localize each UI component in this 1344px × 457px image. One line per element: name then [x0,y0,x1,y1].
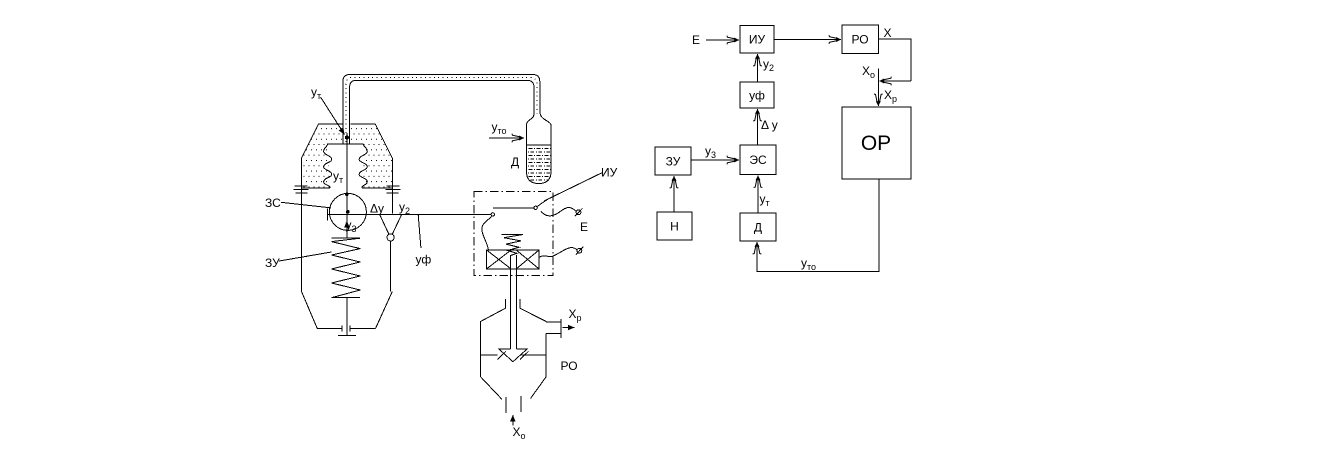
arrow Xp [563,327,575,329]
label X [884,26,892,40]
block Д [740,213,776,241]
contact circle left [491,213,494,216]
svg-text:ОР: ОР [861,132,891,155]
block ЭС [740,145,776,175]
svg-text:ЗУ: ЗУ [666,155,681,169]
valve bottom body [481,355,547,399]
label Xp [884,88,897,104]
chamber dotted fill [302,124,393,188]
spring ЗУ [332,238,361,298]
blade pivot circle [534,206,537,209]
label ЗС [265,196,281,210]
label ОР [861,132,891,155]
label y2 lever [399,200,410,216]
terminal upper [575,208,583,216]
node circle top [345,193,349,197]
label y3 [705,144,716,160]
label yto bulb [492,120,507,136]
block уф [740,82,774,108]
switch blade [493,207,534,209]
label ЗУ [265,256,280,270]
arrow y3 [346,221,348,226]
label уф lever [416,253,432,267]
valve stem [511,255,517,349]
svg-text:ИУ: ИУ [601,166,618,180]
arrow ИУ to РО [774,39,841,41]
arrow Н to ЗУ [673,176,675,212]
bulb body [527,125,552,184]
node circle center [346,210,350,214]
svg-text:РО: РО [561,359,578,373]
pointer ЗС [281,202,331,208]
svg-text:Е: Е [580,220,588,234]
block ЗУ [655,147,691,175]
arrow Д to ЭС [757,176,759,214]
label уф [749,89,765,103]
pointer ЗУ [279,252,331,261]
label delta y lever [370,202,384,216]
svg-text:Δ у: Δ у [761,118,778,132]
seat marks [498,351,529,359]
arrow yto to bulb [489,137,524,139]
bulb neck [527,112,552,125]
arrow E to ИУ [706,39,739,41]
lever bar [328,209,492,221]
svg-text:Н: Н [670,220,679,234]
svg-text:Д: Д [511,155,519,169]
valve plug [499,349,527,362]
label Д bulb [511,155,519,169]
label y2 [763,57,774,73]
svg-text:уф: уф [749,89,765,103]
label ИУ [749,33,766,47]
label ИУ pointer [601,166,618,180]
node Xo stub [877,69,879,82]
arrow ЗУ to ЭС [691,159,739,161]
label Хо valve [513,425,526,441]
inlet flanges [506,396,521,413]
label Е input [692,33,700,47]
capillary tube entry white [343,123,349,145]
chamber bottom edge [302,187,393,189]
label y3 rod [346,218,357,234]
cavity arch top [327,143,364,145]
rod lower [346,298,348,336]
chamber outline [302,124,393,186]
blade tilt [537,199,548,207]
bellows left [324,144,332,188]
bulb liquid fill [527,145,551,183]
valve gland ticks [506,299,520,308]
capillary tube inner wall [350,80,534,144]
arrow ЭС to уф [757,109,759,145]
seal plates right [385,186,400,193]
fulcrum pivot circle [387,234,394,241]
anchor T [338,334,356,336]
block ИУ [740,26,774,54]
housing right wall lower [390,241,392,292]
bellows right [359,144,367,188]
svg-text:ЭС: ЭС [749,153,767,167]
housing bottom [317,325,375,331]
block РО [842,25,878,53]
valve top body [481,308,561,355]
block ОР [842,107,911,179]
block Н [657,212,692,240]
housing right wall upper [391,186,393,213]
outlet flange [560,319,562,338]
svg-text:уф: уф [416,253,432,267]
svg-text:Е: Е [692,33,700,47]
sensor circle ЗС [329,193,366,230]
svg-text:ИУ: ИУ [749,33,766,47]
terminal lower [576,247,584,255]
pointer ИУ [544,173,603,202]
node rod top [345,136,349,140]
svg-text:Д: Д [754,221,762,235]
wire to upper terminal [541,208,576,216]
label yto feedback [801,256,816,272]
valve seat line [481,354,547,356]
arrow junction to ОР [877,81,879,106]
svg-text:ЗС: ЗС [265,196,281,210]
label Хр valve [569,307,582,323]
solenoid coil [487,250,539,269]
label РО [851,33,868,47]
svg-text:ЗУ: ЗУ [265,256,280,270]
capillary tube outer wall [343,75,540,145]
capillary tube dotted core [346,77,537,142]
center rod [346,133,348,238]
label delta y [761,118,778,132]
bulb liquid line [527,144,552,146]
label yt top [311,85,321,101]
arrow Xo [512,415,514,425]
label yt riser [760,192,770,208]
label yt cavity [333,169,343,185]
svg-text:Δу: Δу [370,202,384,216]
wire to lower terminal [539,248,577,258]
label Н [670,220,679,234]
pointer уф [418,215,421,248]
wire РО output X loop [878,39,911,81]
housing left wall [302,186,393,328]
svg-text:Х: Х [884,26,892,40]
pointer yt [321,97,345,135]
label РО valve [561,359,578,373]
label ЗУ [666,155,681,169]
seal plates left [294,186,309,193]
label Д [754,221,762,235]
svg-text:РО: РО [851,33,868,47]
arrow уф to ИУ [757,54,759,82]
capillary dotted top row extra [0,0,1,1]
label ЭС [749,153,767,167]
wire ОР to Д feedback [757,179,879,272]
label Е terminals [580,220,588,234]
bellows cavity white [328,144,364,188]
relay box dash-dot [474,192,553,276]
label Xo [862,64,875,80]
lever fulcrum V [380,215,402,234]
relay spring [502,235,524,256]
wire contact to solenoid [482,216,493,250]
